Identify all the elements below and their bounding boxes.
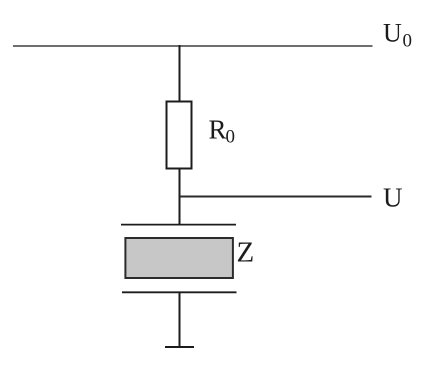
node label U0: [383, 19, 412, 52]
wire: Z bottom plate to ground: [179, 292, 181, 347]
resistor R0: [167, 102, 192, 169]
svg-text:U: U: [383, 19, 402, 48]
impedance Z body: [125, 238, 232, 278]
value label Z: [237, 236, 255, 268]
ground: [165, 346, 194, 348]
wire: resistor R0 bottom to junction at Z top plate: [179, 168, 181, 225]
wire: rail to resistor R0 top: [179, 45, 181, 102]
svg-text:0: 0: [226, 127, 236, 148]
node label U: [383, 183, 403, 213]
svg-text:R: R: [209, 115, 227, 145]
value label R0: [209, 115, 236, 148]
svg-text:0: 0: [403, 31, 413, 52]
svg-text:Z: Z: [237, 236, 255, 268]
wire: output tap, junction to net U: [180, 196, 372, 198]
impedance Z top plate: [121, 224, 236, 226]
svg-text:U: U: [383, 183, 403, 213]
wire: top supply rail (net U0): [13, 45, 373, 47]
impedance Z bottom plate: [122, 291, 237, 293]
